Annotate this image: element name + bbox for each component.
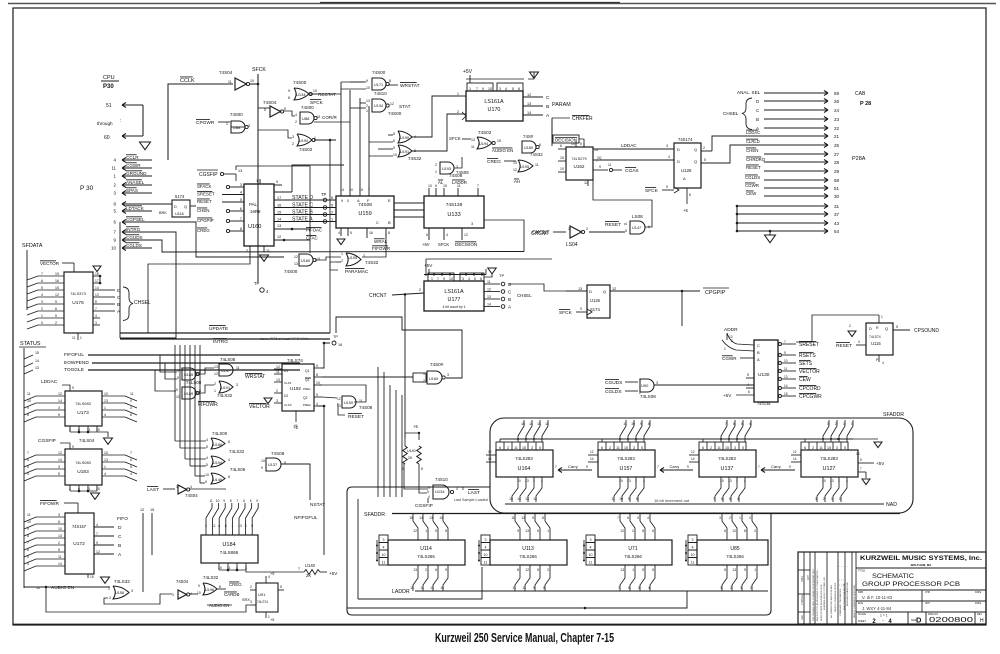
svg-text:4: 4 bbox=[456, 487, 458, 491]
svg-text:C: C bbox=[546, 95, 550, 101]
svg-text:2: 2 bbox=[703, 146, 705, 150]
U114 bottom fan bbox=[413, 572, 418, 591]
svg-text:5: 5 bbox=[537, 568, 539, 572]
svg-text:6: 6 bbox=[628, 586, 630, 590]
wire SETS RSETS to U115 bbox=[796, 341, 812, 343]
svg-text:5: 5 bbox=[280, 585, 282, 589]
svg-text:7: 7 bbox=[476, 87, 478, 91]
svg-text:CGLDS: CGLDS bbox=[605, 389, 622, 395]
svg-text:U150: U150 bbox=[344, 401, 353, 405]
svg-text:11: 11 bbox=[266, 249, 270, 253]
svg-text:5: 5 bbox=[427, 490, 429, 494]
svg-text:SFCK: SFCK bbox=[252, 67, 266, 73]
svg-text:10: 10 bbox=[218, 566, 222, 570]
svg-text:UNLESS OTHERWISE NOTED: UNLESS OTHERWISE NOTED bbox=[835, 582, 837, 612]
U130 output RSETS bbox=[779, 354, 782, 357]
svg-text:U114: U114 bbox=[420, 546, 432, 552]
U85 top pins bbox=[726, 533, 728, 540]
svg-text:B: B bbox=[757, 350, 760, 355]
svg-text:FIFOAC: FIFOAC bbox=[306, 228, 322, 233]
svg-text:SPAS: SPAS bbox=[126, 188, 138, 193]
svg-text:10: 10 bbox=[589, 553, 593, 557]
svg-text:74LS08: 74LS08 bbox=[220, 357, 236, 362]
svg-text:P 30: P 30 bbox=[80, 185, 94, 192]
U173 right pins bbox=[102, 396, 137, 401]
svg-text:12: 12 bbox=[214, 372, 218, 376]
svg-text:8: 8 bbox=[228, 475, 230, 479]
svg-text:18: 18 bbox=[95, 272, 99, 276]
svg-text:CHSEL: CHSEL bbox=[517, 293, 532, 298]
title block left columns bbox=[803, 552, 805, 624]
svg-text:CPSOUND: CPSOUND bbox=[914, 328, 939, 334]
svg-text:12: 12 bbox=[488, 450, 492, 454]
svg-text:1: 1 bbox=[226, 122, 228, 126]
svg-text:60: 60 bbox=[104, 135, 110, 141]
svg-text:U194: U194 bbox=[479, 142, 488, 146]
U137 bottom fan bbox=[715, 483, 721, 502]
svg-text:2: 2 bbox=[419, 288, 421, 292]
svg-text:3: 3 bbox=[248, 124, 250, 128]
U192 +5 bottom bbox=[295, 411, 297, 422]
svg-text:1: 1 bbox=[435, 170, 437, 174]
svg-text:12: 12 bbox=[612, 287, 616, 291]
svg-text:1: 1 bbox=[736, 479, 738, 483]
svg-text:10: 10 bbox=[104, 392, 108, 396]
svg-text:3: 3 bbox=[858, 340, 860, 344]
svg-text:12: 12 bbox=[620, 529, 624, 533]
svg-text:B: B bbox=[756, 117, 759, 122]
flip-flop U126 S174 bottom bbox=[587, 285, 610, 318]
wire INTRG down bbox=[120, 232, 176, 338]
P28 pin 22 bbox=[764, 127, 828, 129]
svg-text:U193: U193 bbox=[442, 167, 451, 171]
svg-text:1: 1 bbox=[533, 479, 535, 483]
U170 left pins bbox=[459, 95, 466, 97]
svg-text:9: 9 bbox=[687, 465, 689, 469]
svg-text:5: 5 bbox=[512, 87, 514, 91]
svg-text:1: 1 bbox=[881, 315, 883, 319]
svg-text:2: 2 bbox=[292, 142, 294, 146]
svg-text:4: 4 bbox=[541, 479, 543, 483]
svg-text:2K: 2K bbox=[408, 456, 413, 460]
svg-text:9: 9 bbox=[55, 300, 57, 304]
svg-text:C: C bbox=[756, 108, 759, 113]
wire mid bundle verticals to bottom bbox=[390, 372, 497, 497]
svg-text:5: 5 bbox=[474, 277, 476, 281]
svg-text:11: 11 bbox=[72, 336, 76, 340]
svg-text:74LS083: 74LS083 bbox=[75, 401, 91, 406]
U113 top pins bbox=[519, 533, 521, 540]
svg-text:1 = 1: 1 = 1 bbox=[880, 614, 888, 618]
svg-text:4: 4 bbox=[104, 472, 106, 476]
svg-text:54: 54 bbox=[834, 229, 840, 234]
svg-text:2: 2 bbox=[823, 497, 825, 501]
svg-text:8: 8 bbox=[219, 585, 221, 589]
svg-text:4: 4 bbox=[846, 479, 848, 483]
svg-text:7: 7 bbox=[41, 272, 43, 276]
svg-text:4: 4 bbox=[744, 479, 746, 483]
svg-text:CGSFIP: CGSFIP bbox=[415, 503, 433, 509]
P28 pin 29 bbox=[764, 170, 828, 172]
svg-text:13: 13 bbox=[238, 169, 242, 173]
svg-text:13: 13 bbox=[294, 262, 298, 266]
svg-text:1: 1 bbox=[104, 465, 106, 469]
svg-text:12: 12 bbox=[390, 102, 394, 106]
svg-text:14: 14 bbox=[58, 562, 62, 566]
U113 left pin boxes bbox=[481, 535, 490, 543]
svg-text:CGLDS: CGLDS bbox=[126, 243, 142, 248]
svg-text:9: 9 bbox=[586, 465, 588, 469]
svg-text:43: 43 bbox=[834, 221, 840, 226]
svg-text:3: 3 bbox=[172, 593, 174, 597]
svg-text:2: 2 bbox=[69, 487, 71, 491]
svg-text:6: 6 bbox=[27, 548, 29, 552]
P28 pin 23 bbox=[764, 118, 828, 120]
svg-text:UNLESS OTHERWISE SPECIFIED: UNLESS OTHERWISE SPECIFIED bbox=[854, 585, 856, 618]
svg-text:13: 13 bbox=[366, 99, 370, 103]
mux U172 74S157 bbox=[65, 513, 94, 574]
svg-text:15: 15 bbox=[150, 508, 154, 512]
U133 bottom pins +5V SFCK DECISION bbox=[428, 228, 430, 240]
svg-text:10: 10 bbox=[111, 246, 116, 251]
gate U193 74S08 bbox=[440, 162, 454, 174]
svg-text:9: 9 bbox=[628, 497, 630, 501]
ground arrow U173 bbox=[104, 438, 113, 444]
svg-text:FIFOWR: FIFOWR bbox=[372, 246, 391, 251]
svg-text:E: E bbox=[388, 198, 391, 203]
svg-text:3: 3 bbox=[656, 381, 658, 385]
svg-text:4: 4 bbox=[737, 497, 739, 501]
svg-text:74S0#: 74S0# bbox=[430, 362, 444, 367]
svg-text:U162: U162 bbox=[574, 164, 585, 169]
svg-text:AUDIO EN: AUDIO EN bbox=[492, 148, 513, 153]
U127 ground bottom bbox=[858, 471, 866, 473]
svg-text:74LS08: 74LS08 bbox=[640, 394, 656, 399]
svg-text:U137: U137 bbox=[721, 466, 734, 472]
svg-text:C: C bbox=[118, 534, 122, 540]
svg-text:DWG NO: DWG NO bbox=[928, 613, 938, 616]
svg-text:74LS32: 74LS32 bbox=[229, 449, 245, 454]
P28A lower vertical bus bbox=[769, 204, 771, 238]
svg-text:8: 8 bbox=[389, 79, 391, 83]
svg-text:U196: U196 bbox=[205, 588, 214, 592]
svg-text:P 28: P 28 bbox=[860, 101, 871, 107]
svg-text:6: 6 bbox=[601, 446, 603, 450]
svg-text:P28A: P28A bbox=[852, 156, 866, 162]
adder U173 74LS083 bbox=[65, 391, 102, 426]
wire CGSFIP top route bbox=[236, 166, 310, 170]
U115 bottom P bbox=[878, 355, 880, 362]
svg-text:U134: U134 bbox=[435, 489, 445, 494]
svg-text:U85: U85 bbox=[730, 546, 739, 552]
ground U170 top right bbox=[528, 72, 534, 79]
svg-text:9: 9 bbox=[640, 422, 642, 426]
svg-text:D: D bbox=[174, 205, 177, 209]
svg-text:Carry: Carry bbox=[670, 464, 680, 469]
svg-text:6: 6 bbox=[724, 529, 726, 533]
svg-text:U126: U126 bbox=[590, 298, 601, 303]
svg-text:U116: U116 bbox=[175, 212, 184, 216]
svg-text:13: 13 bbox=[732, 568, 736, 572]
wire mid long horizontals bbox=[310, 295, 355, 470]
svg-text:8: 8 bbox=[517, 568, 519, 572]
gate U191 74LS32 mid bbox=[219, 381, 233, 393]
U127 bottom pins bbox=[822, 477, 824, 483]
wire CGUDS bbox=[152, 240, 524, 252]
svg-text:+5V: +5V bbox=[463, 69, 473, 75]
U71 left pin boxes bbox=[586, 535, 595, 543]
svg-text:74S00: 74S00 bbox=[293, 80, 307, 85]
svg-text:13: 13 bbox=[413, 568, 417, 572]
svg-text:4: 4 bbox=[648, 586, 650, 590]
svg-text:PARAMAC: PARAMAC bbox=[345, 269, 369, 275]
wires paramac bbox=[315, 257, 341, 260]
svg-text:7: 7 bbox=[617, 516, 619, 520]
svg-text:3: 3 bbox=[131, 589, 133, 593]
svg-text:74LS283: 74LS283 bbox=[617, 456, 635, 461]
svg-text:12: 12 bbox=[533, 497, 537, 501]
svg-text:A: A bbox=[757, 357, 760, 362]
svg-text:9: 9 bbox=[580, 307, 582, 311]
svg-text:15: 15 bbox=[784, 392, 788, 396]
U127 bottom fan bbox=[817, 483, 823, 502]
svg-text:9: 9 bbox=[599, 165, 601, 169]
svg-text:7: 7 bbox=[713, 497, 715, 501]
svg-text:8: 8 bbox=[240, 227, 242, 231]
U173 left pins bbox=[24, 396, 65, 401]
svg-text:A: A bbox=[683, 176, 686, 181]
svg-text:28: 28 bbox=[834, 160, 840, 165]
svg-text:U157: U157 bbox=[620, 466, 633, 472]
svg-text:GROUND: GROUND bbox=[126, 171, 147, 176]
svg-text:6: 6 bbox=[55, 307, 57, 311]
svg-text:1: 1 bbox=[108, 587, 110, 591]
U85 left pin boxes bbox=[688, 535, 697, 543]
svg-text:VECTOR: VECTOR bbox=[40, 261, 60, 266]
svg-text:16: 16 bbox=[338, 343, 342, 347]
gate U190 74S02 low bbox=[297, 134, 312, 146]
gate U191 or right bbox=[398, 145, 412, 157]
svg-text:2: 2 bbox=[710, 446, 712, 450]
svg-text:SRESET: SRESET bbox=[197, 192, 215, 197]
svg-text:6: 6 bbox=[435, 568, 437, 572]
svg-text:14: 14 bbox=[95, 286, 99, 290]
svg-text:74LS74: 74LS74 bbox=[257, 600, 268, 604]
svg-text:74S00: 74S00 bbox=[301, 105, 314, 110]
svg-text:10: 10 bbox=[393, 153, 397, 157]
svg-text:7: 7 bbox=[96, 532, 98, 536]
svg-text:8: 8 bbox=[27, 413, 29, 417]
svg-text:10: 10 bbox=[822, 479, 826, 483]
svg-text:12: 12 bbox=[732, 529, 736, 533]
svg-text:11: 11 bbox=[608, 163, 612, 167]
U114 top pins bbox=[417, 533, 419, 540]
svg-text:74S08: 74S08 bbox=[359, 405, 373, 410]
svg-text:0200800: 0200800 bbox=[929, 617, 973, 624]
svg-text:U195: U195 bbox=[520, 165, 529, 169]
svg-text:U115: U115 bbox=[871, 341, 881, 346]
svg-text:1: 1 bbox=[331, 218, 333, 222]
svg-text:0: 0 bbox=[130, 399, 132, 403]
svg-text:1: 1 bbox=[80, 336, 82, 340]
U160 bottom pins and ground bbox=[249, 246, 251, 262]
svg-text:11: 11 bbox=[484, 561, 488, 565]
svg-text:4: 4 bbox=[228, 458, 230, 462]
wires to U134b bbox=[360, 102, 366, 104]
svg-text:2K: 2K bbox=[306, 573, 311, 578]
svg-text:13: 13 bbox=[429, 516, 433, 520]
svg-text:AND IS NOT TO BE RELEASED TO O: AND IS NOT TO BE RELEASED TO OTHER PARTI… bbox=[816, 570, 819, 621]
P28 pin 28 bbox=[764, 161, 828, 163]
svg-text:CREG: CREG bbox=[487, 159, 501, 165]
svg-text:5174: 5174 bbox=[175, 194, 185, 199]
svg-text:5: 5 bbox=[652, 568, 654, 572]
wires into U134 last bbox=[404, 478, 428, 488]
svg-text:6: 6 bbox=[518, 87, 520, 91]
svg-text:Kurzweil 250 Service Manual, C: Kurzweil 250 Service Manual, Chapter 7-1… bbox=[435, 631, 614, 645]
svg-text:U130: U130 bbox=[758, 372, 770, 378]
svg-text:5: 5 bbox=[55, 314, 57, 318]
svg-text:CHCNT: CHCNT bbox=[531, 231, 549, 237]
svg-text:1: 1 bbox=[739, 516, 741, 520]
svg-text:10: 10 bbox=[104, 451, 108, 455]
svg-text:16: 16 bbox=[277, 204, 281, 208]
svg-text:74LS083: 74LS083 bbox=[75, 460, 91, 465]
inverter LS04 bbox=[570, 226, 581, 238]
U126 +5 bottom bbox=[686, 188, 688, 204]
svg-text:12: 12 bbox=[294, 255, 298, 259]
svg-text:15: 15 bbox=[443, 184, 447, 188]
wire chcnt pullup vertical bbox=[404, 294, 406, 438]
flip-flop U115 74LS74 bbox=[866, 323, 893, 355]
wire bus left vertical long bbox=[119, 222, 121, 338]
latch U176 74LS373 bbox=[64, 272, 93, 333]
svg-text:CGWR: CGWR bbox=[722, 356, 737, 361]
svg-text:5: 5 bbox=[724, 568, 726, 572]
svg-text:6: 6 bbox=[804, 446, 806, 450]
U176 ground top bbox=[93, 266, 101, 272]
svg-text:14: 14 bbox=[527, 111, 531, 115]
svg-text:6: 6 bbox=[240, 207, 242, 211]
svg-text:5: 5 bbox=[638, 586, 640, 590]
svg-text:10: 10 bbox=[27, 399, 31, 403]
svg-text:U192: U192 bbox=[290, 386, 301, 391]
svg-text:10: 10 bbox=[382, 553, 386, 557]
U184 top wire fan bbox=[206, 503, 212, 528]
svg-text:SFACK: SFACK bbox=[197, 184, 211, 189]
wire fan tops join bbox=[378, 496, 414, 498]
svg-text:11: 11 bbox=[130, 392, 134, 396]
svg-text:19: 19 bbox=[55, 272, 59, 276]
U184 top pin numbers bbox=[205, 528, 207, 535]
svg-text:9: 9 bbox=[533, 586, 535, 590]
svg-text:+5V: +5V bbox=[424, 263, 433, 268]
svg-text:74S32: 74S32 bbox=[408, 156, 422, 161]
wire CPGPIP bbox=[610, 290, 700, 292]
svg-text:13: 13 bbox=[430, 586, 434, 590]
P28 pin 58 bbox=[764, 179, 828, 181]
svg-text:4: 4 bbox=[383, 546, 385, 550]
svg-text:CEW: CEW bbox=[799, 377, 811, 383]
U177 clock input bbox=[419, 288, 424, 294]
svg-text:14: 14 bbox=[277, 218, 281, 222]
svg-text:D1: D1 bbox=[284, 369, 288, 373]
svg-text:PRE2: PRE2 bbox=[303, 403, 311, 407]
svg-text:CLRLD: CLRLD bbox=[746, 139, 760, 144]
svg-text:11: 11 bbox=[471, 145, 475, 149]
svg-text:14: 14 bbox=[571, 142, 575, 146]
wire bottom route b bbox=[347, 591, 687, 608]
svg-text:9: 9 bbox=[276, 180, 278, 184]
svg-text:3: 3 bbox=[590, 538, 592, 542]
svg-text:74LS266: 74LS266 bbox=[726, 554, 744, 559]
svg-text:RDSTAT: RDSTAT bbox=[318, 92, 336, 97]
svg-text:3: 3 bbox=[692, 538, 694, 542]
svg-text:1: 1 bbox=[547, 529, 549, 533]
svg-text:2: 2 bbox=[435, 163, 437, 167]
U164 bottom fan bbox=[512, 483, 518, 502]
svg-text:CPCORD: CPCORD bbox=[799, 386, 821, 392]
svg-text:4: 4 bbox=[104, 413, 106, 417]
wire STATE B bbox=[274, 214, 336, 216]
wires U190 U191 left bbox=[388, 134, 393, 136]
svg-text:13: 13 bbox=[513, 161, 517, 165]
svg-text:6: 6 bbox=[702, 446, 704, 450]
svg-text:9: 9 bbox=[261, 466, 263, 470]
svg-text:2: 2 bbox=[276, 389, 278, 393]
svg-text:U127: U127 bbox=[823, 466, 836, 472]
svg-text:9: 9 bbox=[744, 568, 746, 572]
svg-text:16 bit increment out: 16 bit increment out bbox=[654, 498, 690, 503]
svg-text:13: 13 bbox=[830, 479, 834, 483]
svg-text:9: 9 bbox=[27, 406, 29, 410]
svg-text:U195: U195 bbox=[348, 256, 357, 260]
svg-text:1: 1 bbox=[256, 179, 258, 183]
svg-text:10: 10 bbox=[517, 479, 521, 483]
U127 ground top bbox=[858, 441, 868, 444]
wire U90 to U130 bbox=[654, 384, 754, 386]
svg-text:AL: AL bbox=[438, 180, 444, 185]
svg-text:58: 58 bbox=[834, 178, 840, 183]
svg-text:INTRG: INTRG bbox=[126, 227, 141, 232]
wire 2Q U162 to U126 bbox=[593, 159, 674, 161]
U164 top fan bbox=[518, 420, 524, 442]
svg-text:5: 5 bbox=[704, 158, 706, 162]
wires U150 bbox=[322, 397, 337, 398]
svg-text:3: 3 bbox=[531, 446, 533, 450]
svg-text:13: 13 bbox=[277, 224, 281, 228]
svg-text:INTRG: INTRG bbox=[213, 339, 228, 345]
svg-text:2: 2 bbox=[609, 446, 611, 450]
U130 input wires bbox=[729, 340, 737, 342]
svg-text:U126: U126 bbox=[681, 168, 692, 173]
svg-text:6: 6 bbox=[41, 279, 43, 283]
U115 ground left bbox=[848, 331, 856, 337]
svg-text:74LS266: 74LS266 bbox=[624, 554, 642, 559]
svg-text:WRSTAT: WRSTAT bbox=[400, 83, 420, 89]
U157 top fan bbox=[620, 420, 626, 442]
svg-text:4: 4 bbox=[316, 402, 318, 406]
svg-text:CHANGE: CHANGE bbox=[801, 594, 804, 605]
svg-text:3: 3 bbox=[95, 321, 97, 325]
svg-text:6: 6 bbox=[537, 529, 539, 533]
wire U115 top loop bbox=[796, 315, 879, 342]
svg-text:U172: U172 bbox=[73, 541, 85, 547]
svg-text:TP: TP bbox=[499, 273, 504, 278]
U183 right pins bbox=[102, 455, 137, 460]
svg-text:U191: U191 bbox=[221, 386, 230, 390]
svg-text:2: 2 bbox=[69, 428, 71, 432]
